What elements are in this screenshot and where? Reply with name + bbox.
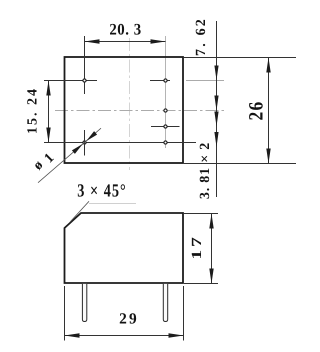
svg-text:3 × 45°: 3 × 45° <box>77 182 127 202</box>
svg-text:17: 17 <box>190 234 205 259</box>
svg-text:26: 26 <box>247 101 269 121</box>
svg-text:20. 3: 20. 3 <box>109 22 141 39</box>
svg-text:3. 81 × 2: 3. 81 × 2 <box>198 142 213 199</box>
svg-text:1: 1 <box>42 151 58 167</box>
svg-text:7. 62: 7. 62 <box>194 17 209 56</box>
svg-text:15. 24: 15. 24 <box>26 87 41 134</box>
svg-text:ø: ø <box>31 158 47 174</box>
svg-text:29: 29 <box>119 311 139 328</box>
